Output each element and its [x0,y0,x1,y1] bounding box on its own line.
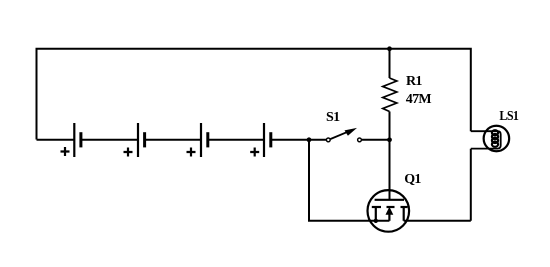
wire battery row left [37,139,75,141]
svg-text:LS1: LS1 [499,107,518,123]
battery V2 [124,123,145,157]
wire battery 2-3 [145,139,201,141]
buzzer LS1 [471,126,509,152]
wire branch down from battery node [309,140,389,221]
wire battery 3-4 [208,139,264,141]
battery V1 [61,123,81,157]
switch S1 [326,128,361,142]
svg-text:S1: S1 [326,110,340,125]
resistor R1 [383,49,397,140]
wire battery 1-2 [81,139,138,141]
wire right rail lower [470,149,472,221]
wire drain to right rail [404,220,471,222]
svg-text:R1: R1 [406,74,422,89]
wire gate vertical [389,140,391,200]
node junction gate/resistor [387,137,392,142]
battery V3 [187,123,208,157]
transistor Q1 [368,190,410,232]
wire switch to gate node [362,139,390,141]
wire battery row to switch [271,139,326,141]
label LS1 [499,107,518,123]
battery V4 [250,123,271,157]
node junction top rail / R1 [387,46,392,51]
node junction at switch branch [307,137,312,142]
svg-text:47M: 47M [406,92,432,107]
svg-text:Q1: Q1 [404,172,421,187]
wire top rail [37,49,471,140]
